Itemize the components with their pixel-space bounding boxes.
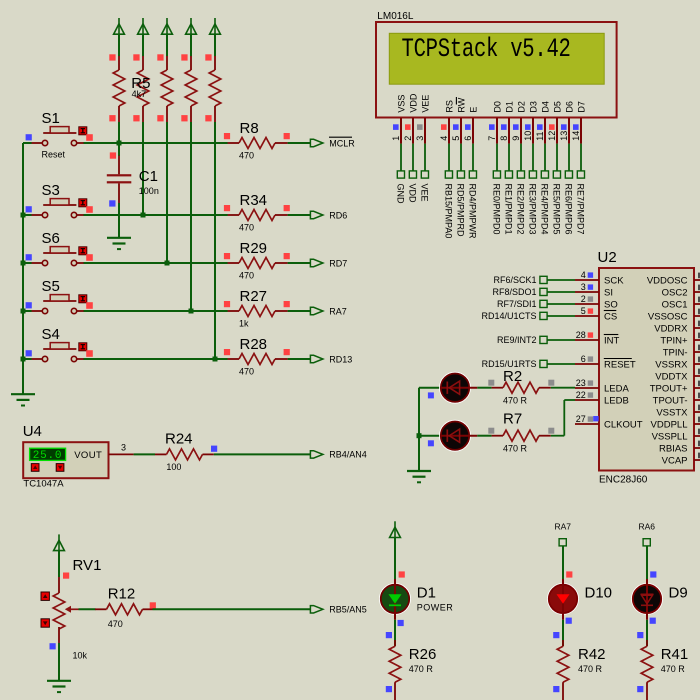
power symbol RV1: [54, 534, 65, 550]
svg-text:RV1: RV1: [73, 557, 102, 574]
wire: [547, 363, 575, 365]
power symbol VCC pull-up 4: [186, 18, 197, 34]
svg-text:S5: S5: [42, 278, 60, 295]
svg-text:RE5/PMPD5: RE5/PMPD5: [552, 184, 562, 235]
terminal RF7/SDI1: [497, 299, 547, 309]
terminal RD15/U1RTS: [482, 359, 547, 369]
svg-text:RE3/PMPD3: RE3/PMPD3: [528, 184, 538, 235]
svg-text:470: 470: [108, 619, 123, 629]
terminal RD4/PMPWR: [468, 171, 478, 239]
U4 pin 3: [109, 453, 134, 455]
svg-text:100: 100: [166, 462, 181, 472]
terminal VEE: [420, 171, 430, 202]
svg-text:Reset: Reset: [42, 150, 66, 160]
wire: [142, 34, 144, 57]
svg-text:3: 3: [121, 443, 126, 453]
resistor R29: [224, 240, 290, 281]
resistor R5 element 5: [205, 54, 221, 122]
wire: [400, 144, 402, 171]
wire: [460, 144, 462, 171]
svg-text:RE7/PMPD7: RE7/PMPD7: [576, 184, 586, 235]
svg-text:RA7: RA7: [329, 306, 347, 316]
wire: [142, 122, 144, 215]
wire: [556, 144, 558, 171]
wire: [166, 122, 168, 263]
terminal RB5/AN5: [310, 606, 323, 613]
svg-text:RESET: RESET: [604, 359, 636, 370]
svg-text:CLKOUT: CLKOUT: [604, 419, 643, 430]
svg-text:25.0: 25.0: [33, 450, 63, 462]
wire: [214, 34, 216, 57]
terminal RE1/PMPD1: [504, 171, 514, 235]
svg-text:470: 470: [239, 223, 254, 233]
wire: [562, 546, 564, 580]
svg-text:LEDA: LEDA: [604, 383, 629, 394]
svg-text:D5: D5: [552, 101, 562, 113]
U2 pin 22 LEDB: [575, 390, 629, 406]
svg-text:TCPStack v5.42: TCPStack v5.42: [402, 35, 571, 65]
ground LED pair: [407, 471, 431, 482]
wire: [83, 358, 227, 360]
wire R2 to pin23: [551, 387, 575, 389]
svg-text:RE0/PMPD0: RE0/PMPD0: [492, 184, 502, 235]
LED green A (to LEDA): [440, 373, 478, 403]
svg-text:R29: R29: [240, 240, 268, 257]
U2 pin 6 RESET: [575, 354, 636, 370]
U2 pin 28 INT: [575, 330, 620, 346]
resistor R26: [386, 640, 437, 700]
svg-text:RE9/INT2: RE9/INT2: [497, 335, 537, 345]
svg-text:SI: SI: [604, 287, 613, 298]
wire: [496, 144, 498, 171]
LCD pin 7 D0: [487, 101, 503, 144]
svg-text:C1: C1: [139, 168, 158, 185]
svg-text:TPOUT+: TPOUT+: [650, 383, 688, 394]
terminal RD5/PMPRD: [456, 171, 466, 237]
svg-text:VSSTX: VSSTX: [656, 407, 688, 418]
LCD pin 9 D2: [511, 101, 527, 144]
wire: [83, 262, 227, 264]
svg-text:27: 27: [576, 414, 586, 424]
wire: [288, 358, 311, 360]
LED D1 POWER green: [380, 579, 410, 620]
wire: [118, 34, 120, 57]
U2 right pin VCAP: [662, 453, 700, 467]
svg-text:RA6: RA6: [639, 521, 656, 531]
wire: [288, 262, 311, 264]
svg-text:RD7: RD7: [329, 258, 347, 268]
wire: [288, 214, 311, 216]
wire: [424, 144, 426, 171]
terminal RE0/PMPD0: [492, 171, 502, 235]
svg-text:S3: S3: [42, 182, 60, 199]
wire: [532, 144, 534, 171]
terminal GND: [396, 171, 406, 204]
wire: [23, 214, 32, 216]
svg-text:1k: 1k: [239, 319, 249, 329]
svg-text:D2: D2: [516, 101, 526, 113]
terminal RE6/PMPD6: [564, 171, 574, 235]
svg-text:R8: R8: [240, 120, 259, 137]
svg-text:100n: 100n: [139, 186, 159, 196]
svg-text:INT: INT: [604, 335, 620, 346]
U2 right pin TPIN-: [663, 345, 700, 359]
junction: [117, 141, 122, 146]
wire: [153, 608, 311, 610]
switch S6: [26, 230, 93, 266]
junction: [21, 261, 26, 266]
svg-text:R26: R26: [409, 646, 437, 663]
U2 right pin VDDOSC: [647, 273, 700, 287]
svg-text:470: 470: [239, 367, 254, 377]
svg-text:9: 9: [511, 136, 521, 141]
terminal RE2/PMPD2: [516, 171, 526, 235]
svg-text:3: 3: [581, 282, 586, 292]
svg-text:10k: 10k: [73, 650, 88, 660]
wire: [58, 643, 60, 682]
svg-text:470: 470: [239, 151, 254, 161]
junction: [189, 309, 194, 314]
svg-text:VDD: VDD: [408, 93, 418, 113]
LCD pin 13 D6: [559, 101, 575, 144]
wire: [394, 620, 396, 646]
svg-text:28: 28: [576, 330, 586, 340]
wire: [190, 122, 192, 311]
wire: [118, 203, 120, 239]
junction: [165, 261, 170, 266]
svg-text:7: 7: [487, 136, 497, 141]
svg-text:RB5/AN5: RB5/AN5: [329, 605, 367, 615]
svg-text:2: 2: [581, 294, 586, 304]
svg-text:OSC1: OSC1: [662, 299, 688, 310]
resistor R5 element 2: [133, 54, 149, 122]
svg-text:R34: R34: [240, 192, 268, 209]
svg-text:GND: GND: [396, 184, 406, 205]
terminal RF8/SDO1: [492, 287, 547, 297]
resistor R2: [488, 368, 554, 406]
wire: [23, 142, 32, 144]
svg-text:22: 22: [576, 390, 586, 400]
chip U2 ENC28J60 body: [599, 268, 694, 471]
U2 pin 5 CS: [575, 306, 617, 322]
wire: [547, 291, 575, 293]
svg-text:POWER: POWER: [417, 602, 454, 612]
svg-text:470 R: 470 R: [503, 443, 528, 453]
U4 up button: [31, 464, 39, 472]
svg-text:13: 13: [559, 131, 569, 141]
svg-text:VDDTX: VDDTX: [655, 371, 688, 382]
svg-text:VDD: VDD: [408, 184, 418, 204]
wire: [547, 303, 575, 305]
junction: [21, 357, 26, 362]
svg-text:8: 8: [499, 136, 509, 141]
U2 pin 27 CLKOUT: [575, 414, 643, 430]
ground RV1: [47, 681, 71, 692]
LCD pin 8 D1: [499, 101, 515, 144]
U2 right pin RBIAS: [659, 441, 700, 455]
LCD pin 14 D7: [571, 101, 587, 144]
svg-text:RE2/PMPD2: RE2/PMPD2: [516, 184, 526, 235]
svg-text:SO: SO: [604, 299, 618, 310]
terminal RD13: [310, 355, 323, 362]
power symbol VCC pull-up 5: [210, 18, 221, 34]
terminal RA7: [310, 307, 323, 314]
svg-text:4k7: 4k7: [132, 89, 147, 99]
U2 right pin VSSTX: [656, 405, 700, 419]
svg-text:R12: R12: [108, 585, 136, 602]
svg-text:RA7: RA7: [555, 521, 572, 531]
svg-text:RF7/SDI1: RF7/SDI1: [497, 299, 537, 309]
svg-text:R28: R28: [240, 336, 268, 353]
svg-text:VSSOSC: VSSOSC: [648, 311, 688, 322]
power symbol D1: [390, 521, 401, 537]
wire: [190, 34, 192, 57]
svg-text:VDDPLL: VDDPLL: [651, 419, 688, 430]
wire: [477, 435, 491, 437]
wire: [288, 142, 311, 144]
svg-text:RE4/PMPD4: RE4/PMPD4: [540, 184, 550, 235]
terminal RD6: [310, 211, 323, 218]
svg-text:RF6/SCK1: RF6/SCK1: [493, 275, 536, 285]
state square pin27: [593, 416, 598, 421]
wire: [419, 387, 441, 389]
power symbol VCC pull-up 2: [138, 18, 149, 34]
wire: [23, 310, 32, 312]
terminal RE5/PMPD5: [552, 171, 562, 235]
svg-text:VSS: VSS: [396, 95, 406, 113]
svg-text:RD14/U1CTS: RD14/U1CTS: [481, 311, 536, 321]
svg-text:R27: R27: [240, 288, 268, 305]
terminal RB4/AN4: [310, 451, 323, 458]
wire left bus: [22, 143, 24, 395]
svg-text:D6: D6: [564, 101, 574, 113]
terminal RE4/PMPD4: [540, 171, 550, 235]
switch S1: [26, 110, 93, 160]
U2 right pin VDDTX: [655, 369, 700, 383]
resistor R7: [488, 411, 554, 454]
svg-text:TC1047A: TC1047A: [23, 479, 64, 490]
switch S4: [26, 326, 93, 362]
svg-text:470 R: 470 R: [578, 664, 603, 674]
wire: [472, 144, 474, 171]
potentiometer RV1: [41, 557, 101, 660]
wire: [288, 310, 311, 312]
svg-text:D10: D10: [585, 585, 613, 602]
LCD pin 10 D3: [523, 101, 539, 144]
svg-text:U4: U4: [23, 423, 42, 440]
svg-text:VDDOSC: VDDOSC: [647, 275, 688, 286]
svg-text:D4: D4: [540, 101, 550, 113]
junction: [21, 309, 26, 314]
wire: [448, 144, 450, 171]
LCD pin 6 E: [463, 107, 479, 144]
junction: [213, 357, 218, 362]
svg-text:E: E: [468, 107, 478, 113]
junction: [141, 213, 146, 218]
svg-text:2: 2: [403, 136, 413, 141]
ground bus: [11, 394, 35, 405]
capacitor C1: [107, 144, 159, 207]
LCD pin 4 RS: [439, 100, 455, 144]
wire: [547, 315, 575, 317]
svg-text:VSSRX: VSSRX: [655, 359, 688, 370]
svg-text:RW: RW: [456, 97, 466, 112]
svg-text:VCAP: VCAP: [662, 455, 688, 466]
terminal RB15/PMPA0: [444, 171, 454, 238]
svg-text:RB4/AN4: RB4/AN4: [329, 450, 367, 460]
svg-text:SCK: SCK: [604, 275, 624, 286]
U2 right pin OSC2: [662, 285, 700, 299]
svg-text:R41: R41: [661, 646, 689, 663]
switch S5: [26, 278, 93, 314]
svg-text:RD4/PMPWR: RD4/PMPWR: [468, 184, 478, 240]
power symbol VCC pull-up 3: [162, 18, 173, 34]
wire: [83, 142, 227, 144]
switch S3: [26, 182, 93, 218]
resistor R41: [637, 640, 688, 700]
wire: [79, 608, 96, 610]
wire R7 up to pin22: [551, 435, 565, 437]
U4 down button: [56, 464, 64, 472]
wire: [83, 214, 227, 216]
svg-text:TPOUT-: TPOUT-: [653, 395, 688, 406]
U2 right pin TPOUT+: [650, 381, 700, 395]
wire: [23, 358, 32, 360]
LED D9: [632, 579, 662, 620]
svg-text:LEDB: LEDB: [604, 395, 629, 406]
wire: [83, 310, 227, 312]
U2 right pin VSSPLL: [652, 429, 700, 443]
svg-text:R24: R24: [165, 431, 193, 448]
svg-text:TPIN+: TPIN+: [660, 335, 688, 346]
svg-text:470 R: 470 R: [503, 396, 528, 406]
svg-text:U2: U2: [598, 249, 617, 266]
U2 right pin VDDRX: [654, 321, 700, 335]
svg-text:R7: R7: [503, 411, 522, 428]
U2 right pin VSSOSC: [648, 309, 700, 323]
svg-text:RBIAS: RBIAS: [659, 443, 688, 454]
resistor R12: [95, 585, 156, 629]
svg-text:CS: CS: [604, 311, 617, 322]
svg-text:3: 3: [415, 136, 425, 141]
junction: [417, 433, 422, 438]
wire: [412, 144, 414, 171]
svg-text:S4: S4: [42, 326, 60, 343]
terminal MCLR: [310, 139, 323, 146]
wire: [646, 620, 648, 646]
svg-text:4: 4: [581, 270, 586, 280]
wire: [520, 144, 522, 171]
svg-text:1: 1: [391, 136, 401, 141]
terminal VDD: [408, 171, 418, 203]
svg-text:RF8/SDO1: RF8/SDO1: [492, 287, 536, 297]
LCD pin 12 D5: [547, 101, 563, 144]
U2 right pin OSC1: [662, 297, 700, 311]
svg-text:RE6/PMPD6: RE6/PMPD6: [564, 184, 574, 235]
resistor R24: [155, 431, 217, 473]
wire LED bus vertical: [418, 388, 420, 472]
ground C1: [107, 238, 131, 249]
svg-text:R42: R42: [578, 646, 606, 663]
wire: [118, 122, 120, 143]
svg-text:6: 6: [581, 354, 586, 364]
svg-text:12: 12: [547, 131, 557, 141]
svg-text:TPIN-: TPIN-: [663, 347, 688, 358]
terminal RE3/PMPD3: [528, 171, 538, 235]
svg-text:D1: D1: [417, 585, 436, 602]
resistor R42: [553, 640, 605, 700]
resistor R8: [224, 120, 290, 161]
power symbol VCC pull-up 1: [114, 18, 125, 34]
svg-text:D1: D1: [504, 101, 514, 113]
wire: [477, 387, 491, 389]
resistor R5 element 1: [109, 54, 124, 122]
LCD pin 3 VEE: [415, 95, 431, 144]
LCD pin 1 VSS: [391, 95, 407, 144]
svg-text:D7: D7: [576, 101, 586, 113]
svg-text:11: 11: [535, 131, 545, 140]
wire: [394, 537, 396, 579]
svg-text:MCLR: MCLR: [329, 138, 355, 148]
svg-text:OSC2: OSC2: [662, 287, 688, 298]
svg-text:5: 5: [581, 306, 586, 316]
LCD pin 11 D4: [535, 101, 551, 144]
LED green B (to LEDB): [440, 421, 478, 451]
svg-text:4: 4: [439, 136, 449, 141]
junction: [21, 213, 26, 218]
U2 pin 23 LEDA: [575, 378, 629, 394]
svg-text:S6: S6: [42, 230, 60, 247]
resistor R5 element 4: [181, 54, 197, 122]
svg-text:ENC28J60: ENC28J60: [599, 475, 648, 486]
terminal RE7/PMPD7: [576, 171, 586, 235]
U2 right pin TPOUT-: [653, 393, 700, 407]
wire: [547, 279, 575, 281]
terminal RD7: [310, 259, 323, 266]
chip U4 TC1047A body: [23, 442, 108, 478]
svg-text:RS: RS: [444, 100, 454, 113]
LCD LM016L body: [376, 22, 617, 118]
U4 display 25.0: [30, 448, 66, 460]
wire: [58, 550, 60, 577]
U2 pin 3 SI: [575, 282, 613, 298]
svg-text:RB15/PMPA0: RB15/PMPA0: [444, 184, 454, 239]
svg-text:RE1/PMPD1: RE1/PMPD1: [504, 184, 514, 235]
wire: [547, 339, 575, 341]
U2 pin 4 SCK: [575, 270, 624, 286]
U2 right pin VDDPLL: [651, 417, 700, 431]
svg-text:VEE: VEE: [420, 184, 430, 202]
svg-text:D3: D3: [528, 101, 538, 113]
svg-text:VEE: VEE: [420, 95, 430, 113]
terminal RD14/U1CTS: [481, 311, 547, 321]
wire: [568, 144, 570, 171]
LED D10 red: [548, 579, 578, 620]
terminal RE9/INT2: [497, 335, 547, 345]
LED D? anode wire: [419, 435, 441, 437]
LCD pin 2 VDD: [403, 93, 419, 144]
svg-text:6: 6: [463, 136, 473, 141]
LCD screen: [389, 33, 604, 84]
svg-text:RD6: RD6: [329, 210, 347, 220]
svg-text:RD13: RD13: [329, 354, 352, 364]
LCD pin 5 RW: [451, 97, 467, 144]
svg-text:D0: D0: [492, 101, 502, 113]
svg-text:23: 23: [576, 378, 586, 388]
svg-text:10: 10: [523, 131, 533, 141]
svg-text:470 R: 470 R: [409, 664, 434, 674]
svg-text:VDDRX: VDDRX: [654, 323, 688, 334]
